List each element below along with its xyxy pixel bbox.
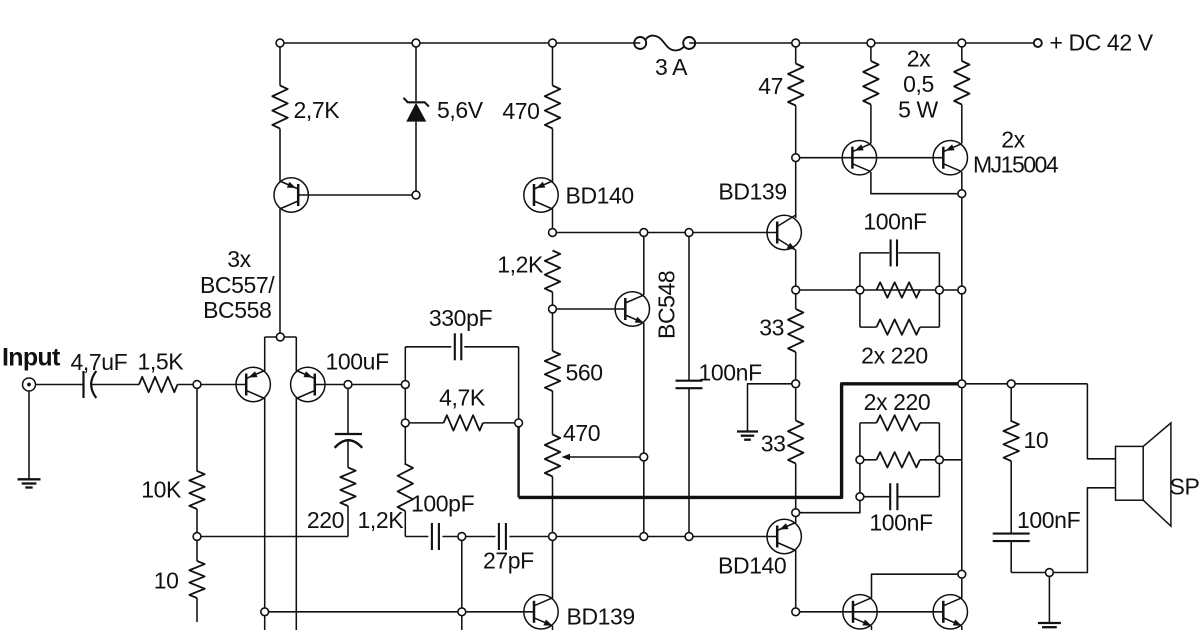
svg-text:BC548: BC548 bbox=[654, 271, 680, 339]
svg-text:470: 470 bbox=[563, 420, 600, 446]
svg-text:2,7K: 2,7K bbox=[294, 97, 341, 123]
svg-text:220: 220 bbox=[307, 507, 344, 533]
svg-text:10K: 10K bbox=[141, 477, 182, 503]
svg-text:BC558: BC558 bbox=[203, 297, 271, 323]
svg-text:330pF: 330pF bbox=[429, 305, 493, 331]
svg-text:1,2K: 1,2K bbox=[497, 252, 544, 278]
svg-text:560: 560 bbox=[566, 360, 603, 386]
svg-text:10: 10 bbox=[154, 568, 179, 594]
svg-text:5,6V: 5,6V bbox=[437, 97, 484, 123]
svg-text:BD140: BD140 bbox=[718, 553, 786, 579]
svg-text:4,7uF: 4,7uF bbox=[71, 349, 128, 375]
svg-text:470: 470 bbox=[502, 98, 539, 124]
svg-text:1,5K: 1,5K bbox=[138, 349, 185, 375]
svg-text:100nF: 100nF bbox=[1017, 507, 1081, 533]
svg-text:2x 220: 2x 220 bbox=[861, 343, 928, 369]
svg-text:3x: 3x bbox=[227, 246, 251, 272]
svg-text:2x: 2x bbox=[1001, 127, 1025, 153]
svg-text:1,2K: 1,2K bbox=[358, 507, 405, 533]
svg-text:MJ15004: MJ15004 bbox=[973, 152, 1059, 178]
svg-text:100nF: 100nF bbox=[869, 510, 933, 536]
svg-text:+ DC 42 V: + DC 42 V bbox=[1050, 30, 1154, 56]
svg-text:33: 33 bbox=[761, 431, 786, 457]
svg-text:100uF: 100uF bbox=[326, 349, 390, 375]
svg-text:Input: Input bbox=[2, 344, 61, 372]
svg-text:0,5: 0,5 bbox=[903, 71, 934, 97]
svg-text:10: 10 bbox=[1024, 427, 1049, 453]
svg-text:100nF: 100nF bbox=[699, 360, 763, 386]
svg-text:33: 33 bbox=[759, 315, 784, 341]
svg-text:2x: 2x bbox=[907, 46, 931, 72]
svg-text:SP: SP bbox=[1170, 474, 1200, 500]
svg-text:100pF: 100pF bbox=[411, 491, 475, 517]
svg-text:BD139: BD139 bbox=[718, 179, 786, 205]
svg-text:3 A: 3 A bbox=[655, 54, 688, 80]
svg-text:27pF: 27pF bbox=[483, 548, 534, 574]
svg-text:BC557/: BC557/ bbox=[200, 272, 275, 298]
svg-text:BD139: BD139 bbox=[567, 604, 635, 630]
svg-text:4,7K: 4,7K bbox=[439, 385, 486, 411]
svg-text:100nF: 100nF bbox=[863, 209, 927, 235]
svg-text:BD140: BD140 bbox=[566, 183, 634, 209]
svg-text:5 W: 5 W bbox=[898, 97, 938, 123]
svg-text:47: 47 bbox=[758, 73, 783, 99]
svg-text:2x 220: 2x 220 bbox=[864, 389, 931, 415]
